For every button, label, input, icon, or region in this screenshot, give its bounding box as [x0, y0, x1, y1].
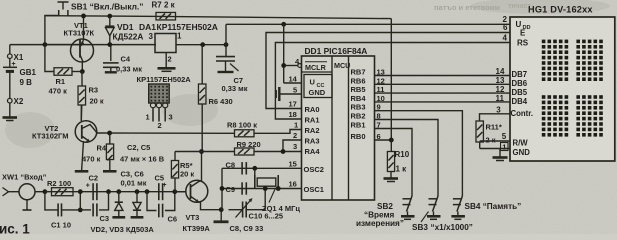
svg-text:6: 6	[503, 23, 508, 32]
wire: C8/C9 common leg to ground node	[221, 168, 223, 209]
wire: OSC2 line	[222, 167, 302, 169]
node: VD1 on top rail	[107, 14, 112, 19]
svg-text:КР1157ЕН502А: КР1157ЕН502А	[157, 22, 218, 32]
resistor R7	[156, 12, 176, 20]
node: VT1 emitter on rail	[81, 14, 86, 19]
svg-text:0,33 мк: 0,33 мк	[116, 65, 142, 74]
svg-text:C2, C5: C2, C5	[127, 143, 150, 152]
node: input / R2 / C1	[43, 189, 48, 194]
svg-text:OSC1: OSC1	[304, 185, 324, 194]
wire: rail A down to RB0	[390, 19, 392, 140]
ground (oscillator)	[220, 210, 222, 222]
svg-text:DB5: DB5	[512, 88, 528, 97]
ground (VD3)	[136, 210, 138, 217]
svg-text:RA0: RA0	[305, 105, 320, 114]
resistor R8 with wire to RA2	[235, 130, 255, 137]
node: C7 / +5V riser	[224, 42, 229, 47]
resistor R4	[109, 133, 111, 144]
wire: RB2 to SB3	[375, 120, 439, 197]
wire: +9V rail from battery to DA1 pin 3	[10, 44, 156, 46]
svg-text:E: E	[520, 29, 526, 38]
svg-text:КД522А: КД522А	[113, 31, 144, 41]
svg-text:+: +	[163, 182, 167, 189]
svg-text:RA4: RA4	[305, 147, 321, 156]
svg-text:C8: C8	[226, 161, 236, 170]
node: VD3 tap	[135, 189, 140, 194]
svg-text:20 к: 20 к	[180, 170, 194, 179]
svg-text:КР1157ЕН502А: КР1157ЕН502А	[137, 75, 192, 84]
wire: RA3 jog to RA4 line	[283, 140, 302, 152]
ground (display)	[499, 149, 501, 158]
ground (battery)	[9, 103, 11, 117]
svg-text:0,01 мк: 0,01 мк	[121, 179, 147, 188]
svg-text:R7 2 к: R7 2 к	[152, 1, 176, 10]
wire: battery minus to X2	[9, 71, 11, 98]
wire: RB1 to SB2	[375, 129, 413, 197]
svg-text:GND: GND	[513, 148, 531, 157]
node: oscillator ground node	[219, 207, 224, 212]
wire: RB3 to SB4	[375, 111, 463, 196]
svg-text:MCU: MCU	[334, 61, 350, 70]
wires: RB7-RB4 to display DB7-DB4	[375, 75, 511, 77]
svg-text:47 мк × 16 В: 47 мк × 16 В	[120, 155, 165, 164]
ground (R4)	[109, 160, 111, 171]
svg-text:КТ3102ГМ: КТ3102ГМ	[32, 132, 69, 141]
resistor R6	[201, 45, 203, 84]
wire: VT3 collector riser	[201, 152, 203, 182]
svg-text:C10 6...25: C10 6...25	[249, 212, 284, 221]
resistor R1	[45, 45, 54, 72]
svg-text:ис. 1: ис. 1	[0, 222, 30, 235]
svg-text:R10: R10	[395, 150, 410, 159]
svg-text:1: 1	[502, 143, 506, 152]
svg-text:R9 220: R9 220	[237, 140, 261, 149]
svg-text:2: 2	[168, 55, 172, 64]
wire: Contr pin 3 to R11	[480, 114, 511, 121]
node: C2 / C3 riser junction	[106, 189, 111, 194]
svg-text:R11*: R11*	[486, 123, 502, 132]
svg-text:3: 3	[169, 113, 173, 122]
diode VD2	[118, 192, 120, 202]
svg-text:3: 3	[293, 142, 297, 151]
svg-text:1 к: 1 к	[396, 165, 408, 174]
wire: series branch to trimmer	[264, 189, 266, 210]
svg-text:13: 13	[496, 76, 505, 85]
capacitor C9	[241, 182, 243, 194]
ground (DA1 pin 2)	[165, 53, 167, 68]
svg-text:12: 12	[496, 85, 505, 94]
svg-text:SB1 “Вкл./Выкл.”: SB1 “Вкл./Выкл.”	[71, 1, 143, 11]
svg-text:RB5: RB5	[351, 85, 366, 94]
svg-text:3: 3	[149, 32, 154, 41]
svg-text:VD1: VD1	[117, 22, 134, 32]
wire: OSC1 line	[222, 188, 302, 190]
svg-text:11: 11	[496, 94, 505, 103]
node: R6 / R9 / R5 / VT3 collector	[199, 149, 204, 154]
svg-text:GB1: GB1	[20, 68, 37, 77]
diode VD3	[136, 192, 138, 203]
svg-text:17: 17	[289, 100, 297, 109]
wire: rail from switch corner down to +9V rail	[45, 16, 58, 45]
svg-text:R6 430: R6 430	[209, 97, 233, 106]
svg-text:20 к: 20 к	[90, 97, 104, 106]
node: branch on OSC1 line	[263, 186, 268, 191]
svg-text:16: 16	[289, 180, 297, 189]
resistor R9 with wire to RA4	[202, 151, 235, 153]
svg-text:1: 1	[294, 121, 298, 130]
display dot matrix	[542, 40, 603, 137]
battery GB1	[9, 59, 11, 67]
node: VT3 base / R5 / C5-C6	[172, 189, 177, 194]
node: VD1 / C4 on +9V rail	[107, 42, 112, 47]
node: C1 / C3 lower junction	[78, 208, 83, 213]
svg-text:“x1/x1000”: “x1/x1000”	[431, 223, 473, 232]
button SB2 (Vremya izmereniya)	[403, 198, 411, 200]
svg-text:1: 1	[146, 113, 150, 122]
button SB4 (Pamyat)	[453, 198, 461, 200]
capacitor C7	[225, 45, 227, 56]
svg-text:DD1 PIC16F84A: DD1 PIC16F84A	[305, 46, 368, 56]
node: C9 left on leg	[220, 186, 225, 191]
wire: RB0 line	[375, 139, 392, 141]
ground (VT2 emitter)	[82, 141, 84, 171]
svg-text:GND: GND	[309, 88, 326, 97]
terminal X1	[8, 54, 13, 59]
transistor VT3 KT399A (NPN)	[175, 191, 186, 193]
wire: loop riser	[79, 192, 81, 210]
svg-text:DB7: DB7	[512, 70, 528, 79]
wire: RA1 to display pin 4 (RS)	[275, 43, 510, 120]
svg-text:C9: C9	[226, 185, 236, 194]
svg-text:1: 1	[177, 32, 182, 41]
svg-text:RB4: RB4	[351, 94, 367, 103]
wire: R5 to collector node	[175, 151, 202, 153]
svg-text:2: 2	[293, 131, 297, 140]
svg-text:0,33 мк: 0,33 мк	[222, 84, 248, 93]
resistor R11*	[476, 121, 483, 142]
capacitor C6 (parallel loop under C5)	[147, 192, 157, 211]
node: VT1 collector / R1 / R3	[80, 69, 85, 74]
svg-text:R8 100 к: R8 100 к	[227, 121, 257, 130]
node: R6 tap	[200, 42, 205, 47]
svg-text:4: 4	[503, 34, 508, 43]
node: R4 tap	[107, 131, 112, 136]
svg-text:R1: R1	[56, 77, 66, 86]
capacitor C10 trimmer	[242, 202, 244, 218]
svg-text:U: U	[310, 78, 315, 87]
node: RA3/RA4 tie	[281, 149, 286, 154]
node: MCLR feed tap	[281, 22, 286, 27]
svg-text:RA1: RA1	[305, 116, 320, 125]
node: R2 / C2 junction	[78, 189, 83, 194]
capacitor C8	[241, 162, 243, 174]
resistor R10	[390, 140, 392, 152]
button SB3 (x1/x1000)	[429, 198, 437, 200]
svg-text:3: 3	[496, 105, 501, 114]
svg-text:Contr.: Contr.	[511, 109, 534, 118]
svg-text:C2: C2	[89, 174, 99, 183]
crystal ZQ1 4 MHz	[254, 175, 256, 189]
wire: VT3 emitter to ground line	[199, 202, 222, 210]
wire: +5V rail to display pin 2 (Udd)	[225, 24, 227, 44]
svg-text:2 к: 2 к	[486, 136, 496, 145]
svg-text:SB4 “Память”: SB4 “Память”	[465, 202, 522, 211]
wire: switched +9V rail (top)	[45, 16, 391, 19]
svg-text:2: 2	[158, 121, 162, 130]
svg-text:15: 15	[289, 160, 297, 169]
svg-text:RB2: RB2	[351, 112, 366, 121]
node: ZQ1 left on OSC2 line	[252, 166, 257, 171]
wire: RA0 to display pin 6 (E)	[266, 33, 510, 109]
svg-text:C3: C3	[100, 214, 110, 223]
resistor R5*	[174, 152, 176, 161]
svg-text:R4: R4	[97, 144, 107, 153]
node: C5 / C6 loop	[145, 189, 150, 194]
resistor R3	[81, 72, 83, 87]
svg-text:R/W: R/W	[513, 139, 529, 148]
svg-text:RB7: RB7	[351, 68, 366, 77]
svg-text:+: +	[86, 183, 90, 190]
svg-text:MCLR: MCLR	[305, 63, 327, 72]
svg-text:RB1: RB1	[351, 121, 366, 130]
svg-text:R2 100: R2 100	[47, 179, 71, 188]
svg-text:RB3: RB3	[351, 103, 366, 112]
svg-text:КТ399А: КТ399А	[183, 224, 211, 233]
svg-text:VT3: VT3	[186, 213, 200, 222]
svg-text:DA1: DA1	[139, 22, 156, 32]
capacitor C4	[110, 45, 112, 61]
svg-text:470 к: 470 к	[82, 155, 101, 164]
svg-text:RS: RS	[517, 38, 529, 47]
diode VD1 KD522A	[109, 16, 111, 26]
terminal X2	[8, 98, 13, 103]
capacitor C3 (parallel loop under C2)	[80, 209, 91, 211]
svg-text:OSC2: OSC2	[304, 165, 324, 174]
svg-text:RA2: RA2	[305, 126, 320, 135]
svg-text:X2: X2	[14, 97, 24, 106]
svg-text:470 к: 470 к	[49, 87, 68, 96]
svg-text:5: 5	[293, 86, 297, 95]
svg-text:XW1 “Вход”: XW1 “Вход”	[2, 173, 47, 182]
svg-text:КТ3107К: КТ3107К	[64, 29, 95, 38]
ground (C7)	[218, 71, 234, 73]
ground (VD2)	[118, 210, 120, 216]
transistor VT1 KT3107K (PNP)	[71, 39, 94, 62]
svg-text:C1 10: C1 10	[51, 221, 71, 230]
ground (pin 5)	[278, 87, 280, 101]
wire: R/W pin 5	[480, 140, 510, 142]
wire: GND pin 1	[480, 148, 510, 150]
svg-text:RB6: RB6	[351, 76, 366, 85]
switch SB1 Vkl/Vykl	[58, 1, 69, 3]
svg-text:18: 18	[289, 110, 297, 119]
svg-text:SB3: SB3	[412, 223, 428, 232]
svg-text:14: 14	[289, 75, 298, 84]
svg-text:R3: R3	[89, 86, 99, 95]
capacitor C2	[92, 183, 94, 200]
ground (R10)	[390, 172, 392, 179]
IC DA1 KR1157EN502A (regulator box)	[155, 34, 176, 53]
svg-text:DB6: DB6	[512, 79, 528, 88]
svg-text:HG1 DV-162xx: HG1 DV-162xx	[528, 4, 593, 14]
node: junction +9V rail / R1 branch	[43, 42, 48, 47]
wire: input signal line	[45, 191, 186, 193]
resistor R2	[52, 188, 74, 196]
svg-text:5: 5	[502, 132, 507, 141]
wire: R11 bottom to R/W and GND	[479, 142, 481, 149]
svg-text:C3, C6: C3, C6	[121, 170, 144, 179]
wire: VT2 collector output line	[97, 132, 235, 134]
node: VD2 tap	[116, 189, 121, 194]
svg-text:C8, C9 33: C8, C9 33	[230, 224, 264, 233]
node: RB0 / R7 / R10	[389, 138, 394, 143]
svg-text:измерения”: измерения”	[356, 219, 404, 228]
capacitor C1 (parallel loop under R2)	[45, 192, 58, 210]
svg-text:C6: C6	[168, 215, 178, 224]
svg-text:9 В: 9 В	[20, 78, 33, 87]
node: ZQ1 right on OSC1 line	[276, 186, 281, 191]
svg-text:VD2, VD3 КД503А: VD2, VD3 КД503А	[91, 225, 155, 234]
svg-text:U: U	[516, 20, 522, 29]
svg-text:14: 14	[496, 67, 505, 76]
wire: DA1 output (+5V)	[177, 44, 227, 46]
svg-text:C4: C4	[121, 55, 131, 64]
transistor VT2 KT3102GM (NPN)	[80, 105, 82, 122]
svg-text:RB0: RB0	[351, 132, 366, 141]
capacitor C5	[158, 183, 160, 200]
svg-text:RA3: RA3	[305, 137, 320, 146]
svg-text:DB4: DB4	[512, 97, 528, 106]
wire: MCLR / Ucc feed	[283, 24, 285, 83]
wire: GND pin 5	[280, 93, 302, 95]
svg-text:патъо и ететвоим: патъо и ететвоим	[434, 3, 500, 12]
